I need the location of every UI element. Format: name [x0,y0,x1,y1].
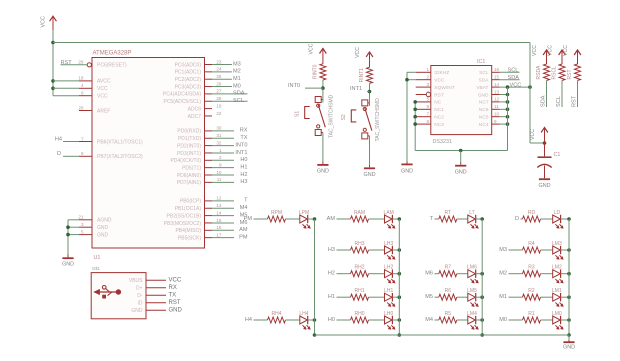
svg-text:VCC: VCC [308,43,314,54]
pin VCC (6) of U1 [79,95,92,97]
wire net H0 [212,159,234,161]
svg-text:4: 4 [81,83,84,88]
wire net AM to resistor RAM [337,218,351,220]
wire VCC top rail [53,42,530,44]
resistor R3 [523,271,541,277]
svg-text:PC1(ADC1): PC1(ADC1) [175,70,202,76]
ground left of IC1 [406,162,408,164]
svg-text:NC1: NC1 [434,107,444,113]
svg-text:LM3: LM3 [552,241,562,247]
junction node INT0 [321,86,325,90]
svg-text:LH4: LH4 [299,311,308,317]
svg-text:M2: M2 [499,271,507,277]
pin NC4 (9) of IC1 [492,123,500,125]
svg-text:VCC: VCC [530,129,536,140]
pin PD3(INT1) (1) of U1 [205,152,213,154]
svg-text:VCC: VCC [97,94,108,100]
svg-text:ATMEGA328P: ATMEGA328P [93,51,132,57]
wire net TX [212,137,234,139]
svg-text:SDA: SDA [233,91,245,97]
svg-text:28: 28 [216,96,222,101]
wire node H4 to XTAL1 [63,141,79,143]
svg-text:26: 26 [216,81,222,86]
wire net M3 [212,64,232,66]
wire resistor to switch node INT0 [322,80,324,97]
pin PB5(SCK) (17) of U1 [205,237,213,239]
wire NC right stub [500,108,508,110]
pin NC7 (12) of IC1 [492,101,500,103]
svg-text:PC6(RESET): PC6(RESET) [97,63,127,69]
svg-text:12: 12 [494,97,500,102]
wire net SDA [212,93,248,95]
svg-text:5: 5 [81,229,84,234]
wire R6 to LED LM5 [457,296,468,298]
pin PB7(XTAL2/TOSC2) (8) of U1 [79,155,92,157]
wire net M6 [212,222,234,224]
pin 32KHZ (1) of IC1 [416,71,431,73]
svg-text:GND: GND [563,345,575,351]
svg-text:H3: H3 [328,247,335,253]
wire RH2 to LED LH2 [369,273,385,275]
junction NC pin [413,100,417,104]
junction LPM on bus [313,217,317,221]
svg-text:16: 16 [494,67,500,72]
diode LED LM5 [468,293,476,301]
junction LM2 on bus [567,272,571,276]
wire SCL stub from IC1 [500,71,520,73]
wire NC right stub [500,123,508,125]
svg-text:H0: H0 [240,157,247,163]
wire RPM to LED LPM [286,218,300,220]
svg-text:PC4(ADC4/SDA): PC4(ADC4/SDA) [163,92,201,98]
svg-text:PM: PM [244,216,253,222]
resistor R7 [439,271,457,277]
svg-text:AREF: AREF [97,108,110,114]
wire net AM [212,229,234,231]
junction LH0 on bus [398,318,402,322]
svg-text:8: 8 [426,119,429,124]
svg-text:H0: H0 [328,317,335,323]
svg-text:GND: GND [539,183,551,189]
resistor RH1 [351,294,369,300]
svg-text:25: 25 [216,74,222,79]
transistor-style switch S1 TAC_SWITCHSMD contacts [315,97,321,103]
pin PC0(ADC0) (23) of U1 [205,64,213,66]
svg-text:PB3(MOSI/OC2): PB3(MOSI/OC2) [164,221,202,227]
svg-text:7: 7 [81,136,84,141]
junction LM3 on bus [567,248,571,252]
svg-text:29: 29 [78,60,84,65]
svg-text:NC3: NC3 [434,122,444,128]
power VCC supply for S1 [322,50,324,58]
wire GND pin5 to ground column [68,234,79,236]
wire NC right stub [500,116,508,118]
power VCC supply for RSDA [546,51,548,59]
svg-text:R5: R5 [445,311,452,317]
svg-text:PD1(TXD): PD1(TXD) [178,136,201,142]
wire R5 to LED LM4 [457,319,468,321]
svg-text:TAC_SWITCHSMD: TAC_SWITCHSMD [375,98,381,142]
svg-text:GND: GND [62,262,74,268]
svg-text:LH3: LH3 [384,241,393,247]
capacitor C1 [544,143,546,156]
svg-text:GND: GND [455,170,467,176]
svg-text:2: 2 [426,75,429,80]
wire R4 to LED LM3 [541,249,553,251]
svg-text:RH4: RH4 [271,311,281,317]
svg-text:D+: D+ [136,286,143,292]
svg-text:RAM: RAM [354,210,365,216]
svg-text:INT1: INT1 [350,86,362,92]
svg-text:VCC: VCC [510,82,522,88]
svg-text:M5: M5 [425,294,433,300]
wire IC1 left ground drop vertical [406,72,408,161]
svg-text:5: 5 [426,97,429,102]
junction NC right [506,100,510,104]
pin PD0(RXD) (30) of U1 [205,130,213,132]
wire net M4 to resistor R5 [435,319,439,321]
junction LH1 on bus [398,295,402,299]
wire VCC to resistor RINT1 [369,61,371,67]
wire LM4 cathode to bus [476,319,483,321]
svg-text:16: 16 [216,225,222,230]
pin GND (13) of IC1 [492,94,500,96]
wire net H2 [212,174,234,176]
diode LED LAM [385,215,393,223]
svg-text:LM5: LM5 [467,288,477,294]
junction bus bottom [567,333,571,337]
wire stub net INT0 [305,87,323,89]
pin GND (5) of U1 [79,234,92,236]
pin PD7(AIN1) (11) of U1 [205,181,213,183]
svg-text:TX: TX [240,135,247,141]
svg-text:R3: R3 [528,265,535,271]
svg-text:C1: C1 [554,152,561,158]
resistor R5 [439,317,457,323]
pin PD4(XCK/T0) (2) of U1 [205,159,213,161]
svg-text:H1: H1 [240,164,247,170]
wire LM1 cathode to bus [561,296,569,298]
svg-text:SCL: SCL [479,70,489,76]
svg-text:LM2: LM2 [552,265,562,271]
wire net H1 [212,167,234,169]
resistor RH4 [268,317,286,323]
svg-text:ADC7: ADC7 [188,114,202,120]
wire stub net INT1 [367,91,370,93]
svg-text:M0: M0 [499,317,507,323]
power VCC supply for RSCL [561,51,563,59]
pin AVCC (18) of U1 [79,80,92,82]
diode LED LM1 [553,293,561,301]
wire LAM cathode to bus [392,218,399,220]
wire LH0 cathode to bus [392,319,399,321]
svg-text:R4: R4 [528,241,535,247]
svg-text:VBAT: VBAT [476,85,488,91]
pin NC3 (8) of IC1 [416,123,431,125]
junction LH4 on bus [313,318,317,322]
svg-text:DS3231: DS3231 [433,139,452,145]
svg-text:VCC: VCC [355,47,361,58]
pin NC2 (7) of IC1 [416,116,431,118]
svg-text:NC4: NC4 [479,122,489,128]
svg-text:LH1: LH1 [384,288,393,294]
wire R1 to LED LM0 [541,319,553,321]
junction bus bottom [480,333,484,337]
svg-text:PD6(AIN0): PD6(AIN0) [177,173,202,179]
svg-text:3: 3 [426,82,429,87]
wire net INT0 [212,145,234,147]
svg-text:RSDA: RSDA [536,65,542,80]
power VCC supply for S2 [369,53,371,61]
pin PD6(AIN0) (10) of U1 [205,174,213,176]
diode LED LH1 [385,293,393,301]
resistor RH2 [351,271,369,277]
svg-text:PD5(T1): PD5(T1) [182,165,201,171]
svg-text:4: 4 [426,89,429,94]
wire LED column cathode bus [481,219,483,335]
pin VBUS of USB connector [146,279,166,281]
svg-text:17: 17 [216,232,222,237]
wire LM5 cathode to bus [476,296,483,298]
svg-text:8: 8 [81,151,84,156]
pin VCC (2) of IC1 [416,79,431,81]
wire net M5 to resistor R6 [435,296,439,298]
svg-text:LH2: LH2 [384,265,393,271]
svg-text:15: 15 [216,218,222,223]
junction bus bottom [398,333,402,337]
wire C1 to ground [544,166,546,179]
svg-text:10: 10 [494,112,500,117]
svg-text:12: 12 [216,196,222,201]
svg-text:RPM: RPM [271,210,282,216]
pin NC1 (6) of IC1 [416,108,431,110]
svg-text:ID: ID [138,301,143,307]
junction LM1 on bus [567,295,571,299]
pin AREF (20) of U1 [79,110,92,112]
svg-text:14: 14 [216,210,222,215]
svg-text:PD7(AIN1): PD7(AIN1) [177,180,202,186]
svg-text:T: T [244,198,248,204]
wire VCC rail drop at right [529,43,531,144]
wire RT to LED LT [457,218,468,220]
svg-text:R7: R7 [445,265,452,271]
ground below C1 [539,178,550,180]
svg-text:M6: M6 [425,271,433,277]
ground below IC1 [460,163,462,165]
pin VCC (4) of U1 [79,87,92,89]
junction LM0 on bus [567,318,571,322]
svg-text:3: 3 [81,222,84,227]
svg-text:LT: LT [469,210,474,216]
svg-text:LH0: LH0 [384,311,393,317]
svg-text:32KHZ: 32KHZ [434,70,449,76]
svg-text:D: D [515,216,519,222]
svg-text:VCC: VCC [434,78,445,84]
wire net RX [212,130,234,132]
svg-text:11: 11 [217,177,222,182]
svg-text:24: 24 [216,67,222,72]
wire LM0 cathode to bus [561,319,569,321]
pin NC5 (10) of IC1 [492,116,500,118]
wire AVCC from VCC column [53,80,79,82]
resistor RT [439,216,457,222]
pin PB4(MISO) (16) of U1 [205,229,213,231]
wire VCC to RSDA [546,59,548,64]
wire RSDA to net SDA [546,81,548,108]
wire LM3 cathode to bus [561,249,569,251]
diode LED LM4 [468,316,476,324]
svg-text:21: 21 [78,215,84,220]
wire LT cathode to bus [476,218,483,220]
pin PB2(SS/OC1B) (14) of U1 [205,215,213,217]
pin GND (3) of U1 [79,226,92,228]
wire net H2 to resistor RH2 [337,273,351,275]
resistor RST pull-up [575,64,581,81]
svg-text:GND: GND [478,92,489,98]
switch S1 actuator bracket [305,107,310,119]
pin ID of USB connector [146,302,166,304]
wire LPM cathode to bus [308,218,315,220]
svg-text:R6: R6 [445,288,452,294]
resistor R6 [439,294,457,300]
svg-text:M0: M0 [233,83,241,89]
wire VCC vertical from supply to ATMEGA power pins [52,30,54,95]
wire LD cathode to bus [561,218,569,220]
op-amp U1 ATMEGA328P IC body [92,58,205,249]
svg-text:NC5: NC5 [479,115,489,121]
resistor RINT0 pull-up [320,64,326,80]
junction C1 VCC node [543,141,547,145]
svg-text:RSCL: RSCL [552,66,558,80]
diode LED LT [468,215,476,223]
wire VCC to resistor RINT0 [322,58,324,64]
svg-text:VCC: VCC [97,86,108,92]
junction LD on bus [567,217,571,221]
svg-text:PC2(ADC2): PC2(ADC2) [175,77,202,83]
wire LM2 cathode to bus [561,273,569,275]
svg-text:H3: H3 [240,179,247,185]
junction NC right [506,115,510,119]
wire RD to LED LD [541,218,553,220]
wire net M0 to resistor R1 [509,319,523,321]
svg-text:M3: M3 [233,61,241,67]
pin ADC6 (19) of U1 [205,108,213,110]
svg-text:13: 13 [216,203,222,208]
pin PB6(XTAL1/TOSC1) (7) of U1 [79,141,92,143]
ground below S1 [322,162,324,164]
wire IC1 bottom ground bus [415,150,507,152]
resistor R4 [523,247,541,253]
wire LH3 cathode to bus [392,249,399,251]
svg-text:LM6: LM6 [467,265,477,271]
svg-text:H2: H2 [328,271,335,277]
svg-text:INT0: INT0 [235,142,247,148]
wire node D to XTAL2 [63,155,79,157]
svg-text:INT0: INT0 [288,83,300,89]
pin VBAT (14) of IC1 [492,86,500,88]
pin PC4(ADC4/SDA) (27) of U1 [205,93,213,95]
svg-text:PB2(SS/OC1B): PB2(SS/OC1B) [167,213,202,219]
svg-text:AGND: AGND [97,218,112,224]
pin PC6(RESET) (29) of U1 [87,63,91,67]
wire net PM [212,237,234,239]
junction LH3 on bus [398,248,402,252]
resistor RSDA pull-up [544,64,550,81]
svg-text:27: 27 [216,89,222,94]
resistor RH3 [351,247,369,253]
svg-text:AM: AM [327,216,336,222]
wire LED column cathode bus [568,219,570,335]
svg-text:VCC: VCC [532,45,538,56]
pin PC1(ADC1) (24) of U1 [205,71,213,73]
wire NC left bus vertical [414,102,416,151]
wire net H3 [212,181,234,183]
diode LED LM6 [468,270,476,278]
wire ground stub for LED bus [568,335,570,340]
pin PD2(INT0) (32) of U1 [205,145,213,147]
svg-text:SCL: SCL [508,68,519,74]
wire AGND to ground column [68,219,79,221]
diode LED LM0 [553,316,561,324]
svg-text:LM1: LM1 [552,288,562,294]
svg-text:PB6(XTAL1/TOSC1): PB6(XTAL1/TOSC1) [97,139,143,145]
svg-text:M4: M4 [240,205,248,211]
svg-text:30: 30 [216,126,222,131]
svg-text:RX: RX [240,128,248,134]
svg-text:31: 31 [216,133,222,138]
resistor RPM [268,216,286,222]
resistor RH0 [351,317,369,323]
svg-text:RST: RST [169,300,181,306]
pin AGND (21) of U1 [79,219,92,221]
svg-text:AM: AM [239,227,248,233]
svg-text:RH1: RH1 [354,288,364,294]
pin PB3(MOSI/OC2) (15) of U1 [205,222,213,224]
junction node INT1 [368,90,372,94]
pin NC6 (11) of IC1 [492,108,500,110]
svg-text:VCC: VCC [563,45,569,56]
resistor R2 [523,294,541,300]
svg-text:NC6: NC6 [479,107,489,113]
wire 32KHZ pin to ground drop [407,71,416,73]
wire GND pin13 stub [500,94,508,96]
USB icon trident [95,290,100,295]
pin PB1(OC1A) (13) of U1 [205,207,213,209]
power VCC supply for RST [577,51,579,59]
svg-text:VCC: VCC [548,45,554,56]
svg-text:M1: M1 [499,294,507,300]
svg-text:PD3(INT1): PD3(INT1) [177,151,201,157]
diode LED LM3 [553,246,561,254]
junction NC right [506,122,510,126]
wire switch S2 to ground [369,136,371,165]
svg-text:SCL: SCL [556,96,562,107]
power VCC supply at C1 [544,129,546,144]
wire switch S1 to ground [322,133,324,162]
junction LAM on bus [398,217,402,221]
svg-text:GND: GND [97,225,109,231]
wire VCC to RSCL [561,59,563,64]
wire R2 to LED LM1 [541,296,553,298]
wire RH0 to LED LH0 [369,319,385,321]
wire VBAT to VCC drop [500,86,531,88]
svg-text:G$1: G$1 [92,266,101,271]
wire net PM to resistor RPM [254,218,268,220]
svg-text:PB1(OC1A): PB1(OC1A) [175,206,202,212]
junction GND pin3 [66,225,70,229]
pin PC5(ADC5/SCL) (28) of U1 [205,100,213,102]
wire LH4 cathode to bus [308,319,315,321]
